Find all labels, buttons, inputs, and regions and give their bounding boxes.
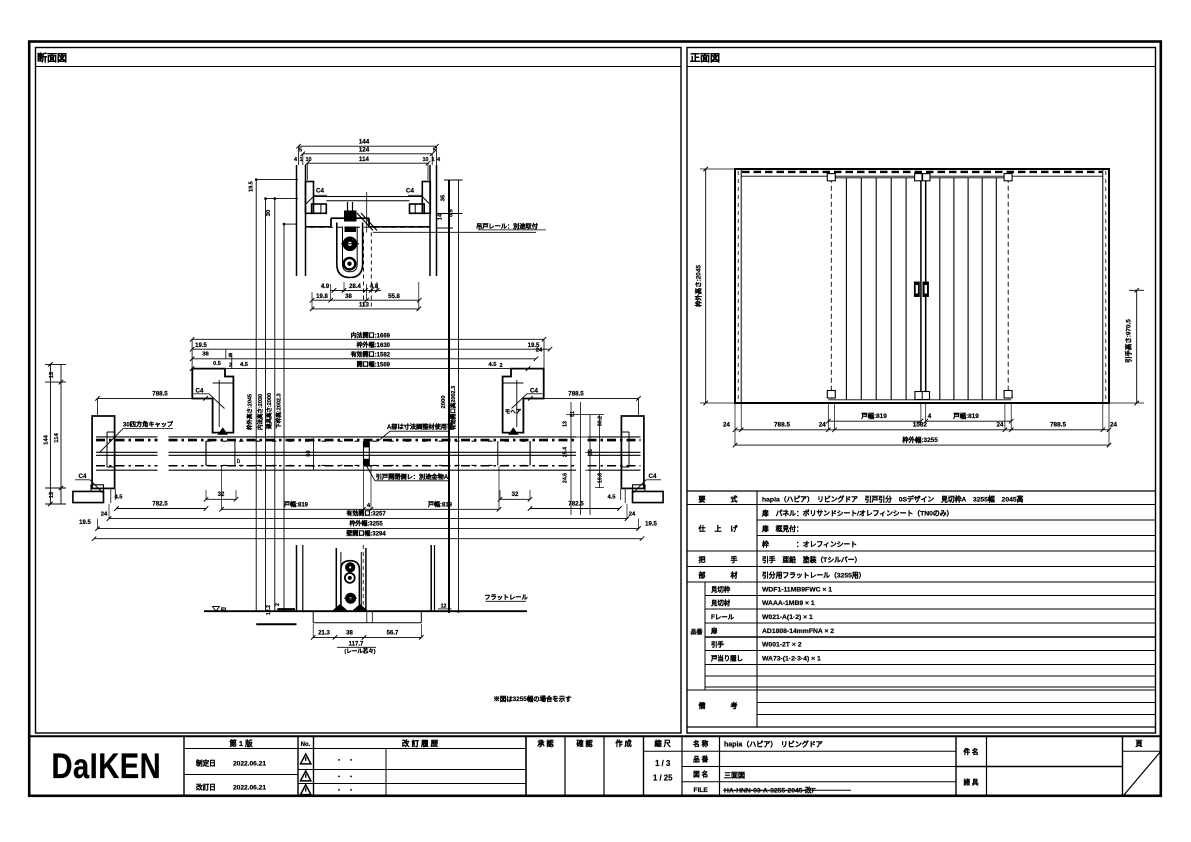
svg-text:30: 30 <box>266 210 272 216</box>
svg-text:品番: 品番 <box>690 628 703 636</box>
name rows grid <box>682 750 956 752</box>
adjuster marker triangle A left <box>218 427 229 435</box>
threshold black bar at floor <box>277 608 295 610</box>
door leaf hidden edges below rail <box>363 233 365 309</box>
spec table hinban label divider <box>704 582 706 690</box>
dim 32 right <box>500 498 530 500</box>
svg-text:縮 尺: 縮 尺 <box>655 739 672 748</box>
dim line 1669 <box>192 338 544 340</box>
svg-text:改 訂 履 歴: 改 訂 履 歴 <box>402 738 439 748</box>
floor guide middle roller <box>345 573 355 583</box>
band top line <box>96 436 158 438</box>
svg-text:144: 144 <box>44 434 50 444</box>
svg-text:25.4: 25.4 <box>563 447 569 457</box>
svg-text:備: 備 <box>699 701 706 710</box>
head jamb board left <box>306 182 314 214</box>
head jamb foot block right <box>410 204 425 213</box>
svg-text:10: 10 <box>305 157 311 163</box>
left end cap profile <box>92 416 115 488</box>
svg-text:引手: 引手 <box>711 640 724 649</box>
vertical reference line 2002.3 <box>458 180 460 611</box>
svg-text:2000: 2000 <box>441 396 447 409</box>
svg-text:図 名: 図 名 <box>693 770 708 779</box>
spec table outer horizontals <box>687 490 1156 492</box>
svg-text:14: 14 <box>438 213 444 220</box>
svg-text:4: 4 <box>928 413 932 420</box>
svg-text:戸幅:819: 戸幅:819 <box>861 411 887 420</box>
revision warning triangle 3 <box>300 785 310 795</box>
left end cap lower L profile <box>73 491 104 502</box>
FL marker <box>213 607 220 612</box>
svg-text:(レール芯々): (レール芯々) <box>344 647 375 655</box>
svg-text:・ ・: ・ ・ <box>336 759 354 765</box>
svg-text:4.8: 4.8 <box>370 284 379 290</box>
svg-text:1582: 1582 <box>913 422 928 429</box>
svg-text:2022.06.21: 2022.06.21 <box>233 785 266 792</box>
svg-text:38: 38 <box>202 352 209 358</box>
svg-text:フラットレール: フラットレール <box>484 595 528 602</box>
svg-text:4.9: 4.9 <box>321 284 330 290</box>
svg-text:10: 10 <box>422 157 428 163</box>
hanger marker square top left <box>827 174 835 181</box>
svg-text:下枠高:2002.3: 下枠高:2002.3 <box>275 393 283 428</box>
hanger clamp plate <box>345 227 357 233</box>
sub floor thick bar left <box>256 623 296 625</box>
svg-text:782.5: 782.5 <box>568 501 584 508</box>
elevation head rail lower line <box>741 175 1103 177</box>
svg-text:制定日: 制定日 <box>196 759 216 768</box>
svg-text:扉 框見付：: 扉 框見付： <box>762 524 803 533</box>
guide marker square bottom center <box>915 392 930 400</box>
svg-text:19.8: 19.8 <box>316 294 328 300</box>
elevation frame stile dashed right <box>1105 171 1107 401</box>
left door panel groove lines <box>845 178 847 400</box>
svg-text:24: 24 <box>723 422 730 429</box>
svg-text:38: 38 <box>345 294 352 300</box>
svg-text:788.5: 788.5 <box>152 390 168 397</box>
svg-text:W021-A(1·2) × 1: W021-A(1·2) × 1 <box>762 614 813 621</box>
floor guide outer bars <box>335 548 337 610</box>
tick top of right reference lines <box>444 179 463 181</box>
svg-text:114: 114 <box>54 433 60 443</box>
elevation dim 819 left <box>828 420 921 422</box>
wall section line left pair lower <box>296 545 298 612</box>
band inner line lower <box>96 454 158 456</box>
svg-text:W001-2T × 2: W001-2T × 2 <box>762 642 802 649</box>
svg-text:51: 51 <box>570 411 576 417</box>
hanger diagonal brace <box>357 213 373 231</box>
svg-text:げ: げ <box>731 524 739 533</box>
svg-text:788.5: 788.5 <box>774 422 790 429</box>
svg-text:32: 32 <box>218 492 225 498</box>
vertical ext line from stile left face <box>191 339 193 368</box>
left door pocket edge dashed <box>830 178 832 400</box>
svg-text:有効開口:1582: 有効開口:1582 <box>351 351 391 359</box>
hanger bolt block <box>344 211 357 222</box>
rail dashed line <box>310 226 428 228</box>
svg-text:改訂日: 改訂日 <box>196 783 216 792</box>
svg-text:0.5: 0.5 <box>449 209 455 217</box>
svg-text:24: 24 <box>536 348 543 354</box>
svg-text:19.5: 19.5 <box>645 521 657 527</box>
elevation height dim 2045 <box>705 169 707 403</box>
dim line 1582 <box>192 358 536 360</box>
svg-text:Fレール: Fレール <box>711 613 735 621</box>
dim chain 819 4 819 <box>222 508 500 510</box>
title block top border <box>29 735 1161 737</box>
svg-text:戸幅:819: 戸幅:819 <box>284 500 309 508</box>
svg-text:FL: FL <box>221 607 229 614</box>
revision warning triangle 1 <box>300 754 310 764</box>
svg-text:19.5: 19.5 <box>79 520 91 526</box>
right door leading edge <box>925 178 927 400</box>
svg-text:式: 式 <box>731 494 738 503</box>
spec table row 仕上げ bottom <box>687 550 1156 552</box>
spec table hinban bottom <box>687 689 1156 691</box>
spec table value column divider <box>756 491 758 727</box>
svg-text:枠外高さ:2045: 枠外高さ:2045 <box>246 394 254 431</box>
vertical reference line 2000 <box>448 180 450 613</box>
extension verticals for sub dims <box>311 292 313 309</box>
dim extension verticals above top assembly <box>298 146 300 165</box>
left panel (section view) frame <box>36 48 682 734</box>
elevation dim 819 right <box>926 420 1012 422</box>
hanger roller housing outer <box>337 223 363 278</box>
hanger marker squares top center <box>915 174 922 181</box>
tiny vertical ticks for 8 and 2 dims <box>225 349 227 359</box>
guide marker square bottom left <box>827 391 835 399</box>
hanger lower roller <box>344 258 356 270</box>
svg-text:引手高さ:970.5: 引手高さ:970.5 <box>1124 319 1133 363</box>
spec table finish rows <box>757 519 1156 521</box>
sub dim line 4.9 28.4 4.8 <box>330 289 381 291</box>
head board horizontal lines <box>314 196 423 198</box>
svg-text:確 認: 確 認 <box>576 739 593 748</box>
spec table row 部材 bottom <box>687 581 1156 583</box>
svg-text:要: 要 <box>699 494 706 503</box>
svg-text:承 認: 承 認 <box>537 739 554 748</box>
right door pocket edge dashed <box>1007 178 1009 400</box>
svg-text:上: 上 <box>715 524 722 533</box>
svg-text:32: 32 <box>512 492 519 498</box>
svg-text:35: 35 <box>588 449 594 455</box>
svg-text:内法高さ:2030: 内法高さ:2030 <box>256 394 264 430</box>
svg-text:24: 24 <box>1110 422 1117 429</box>
svg-text:1 / 3: 1 / 3 <box>655 759 671 768</box>
elevation dim extension verticals <box>734 403 736 445</box>
svg-text:扉: 扉 <box>711 626 718 635</box>
svg-text:19.8: 19.8 <box>598 473 604 483</box>
left panel header separator <box>36 66 682 68</box>
elevation door frame outline <box>735 169 1109 403</box>
svg-text:0.5: 0.5 <box>213 361 221 367</box>
svg-text:有効開口:3257: 有効開口:3257 <box>346 510 386 518</box>
svg-text:55.8: 55.8 <box>388 294 400 300</box>
dim 32 left <box>206 498 236 500</box>
rail anchor wedges <box>333 604 348 610</box>
svg-text:124: 124 <box>359 146 370 153</box>
svg-text:782.5: 782.5 <box>152 501 168 508</box>
elevation handle height dim 970.5 <box>1136 290 1138 403</box>
svg-text:戸当り隠し: 戸当り隠し <box>711 654 743 663</box>
svg-text:113: 113 <box>359 302 370 309</box>
svg-text:モヘア: モヘア <box>505 409 522 416</box>
svg-text:枠 ：オレフィンシート: 枠 ：オレフィンシート <box>761 540 857 549</box>
svg-text:FILE: FILE <box>694 787 709 794</box>
right panel (elevation view) frame <box>687 48 1156 734</box>
scale column 縮尺 <box>644 750 683 752</box>
svg-text:13: 13 <box>563 421 569 427</box>
left dim extension line cluster <box>255 180 257 612</box>
svg-text:15: 15 <box>49 491 55 498</box>
svg-text:C4: C4 <box>530 387 538 394</box>
elevation door bottom edge <box>828 399 1011 401</box>
dim 788.5 right <box>530 397 638 399</box>
svg-text:hapia（ハピア） リビングドア: hapia（ハピア） リビングドア <box>724 739 823 748</box>
svg-text:WAAA-1MB9 × 1: WAAA-1MB9 × 1 <box>762 600 815 607</box>
svg-text:手: 手 <box>731 555 738 564</box>
svg-text:4.5: 4.5 <box>114 495 123 501</box>
leader line to rail note <box>373 231 536 233</box>
centerline of hanger <box>366 192 368 233</box>
svg-text:12.2: 12.2 <box>266 605 272 615</box>
spec table row 要式 bottom <box>687 504 1156 506</box>
door handle left <box>914 282 920 298</box>
svg-text:24.6: 24.6 <box>563 473 569 483</box>
svg-text:品 番: 品 番 <box>693 754 708 763</box>
svg-text:24: 24 <box>997 422 1004 429</box>
svg-text:見切材: 見切材 <box>710 598 731 607</box>
svg-text:部: 部 <box>699 571 706 580</box>
svg-text:38: 38 <box>346 630 353 636</box>
floor guide lower roller <box>346 593 356 603</box>
left door leading edge <box>920 178 922 400</box>
svg-text:名 称: 名 称 <box>693 739 708 748</box>
elevation head rail heavy dashed line <box>742 171 1102 173</box>
elevation chain 24 788.5 24 1582 24 788.5 24 <box>735 429 1109 431</box>
band bottom line <box>96 469 158 471</box>
top dim line 114 <box>307 162 428 164</box>
left door stile profile <box>192 369 233 433</box>
hanger marker square top right <box>1004 174 1012 181</box>
sub dim line 19.8 38 55.8 <box>312 299 419 301</box>
svg-text:C4: C4 <box>649 473 657 480</box>
floor guide top roller <box>346 563 355 572</box>
hanger roller housing inner <box>343 227 358 272</box>
svg-text:DaIKEN: DaIKEN <box>52 746 162 785</box>
svg-text:114: 114 <box>359 156 370 163</box>
svg-text:21.3: 21.3 <box>318 630 330 636</box>
right end cap lower L profile <box>633 491 664 502</box>
spec table hinban rows <box>705 595 1156 597</box>
svg-text:1: 1 <box>299 157 302 163</box>
svg-text:WA73-(1·2·3·4) × 1: WA73-(1·2·3·4) × 1 <box>762 656 821 663</box>
svg-text:117.7: 117.7 <box>349 642 364 648</box>
head jamb foot block left <box>312 204 327 213</box>
svg-text:把: 把 <box>699 555 706 564</box>
svg-text:8: 8 <box>228 353 231 359</box>
svg-text:正面図: 正面図 <box>690 52 720 64</box>
dim chain 3255 <box>98 528 639 530</box>
svg-text:C4: C4 <box>196 387 204 394</box>
dim chain 3257 <box>109 518 627 520</box>
top dim line 124 <box>303 153 432 155</box>
right side small vertical dims <box>570 402 572 515</box>
svg-text:作 成: 作 成 <box>615 739 632 748</box>
top dim line 144 <box>299 145 437 147</box>
page column 頁 <box>1123 750 1161 752</box>
svg-text:C4: C4 <box>79 473 87 480</box>
svg-text:AD1808-14mmFNA × 2: AD1808-14mmFNA × 2 <box>762 628 834 635</box>
svg-text:開口幅:1569: 開口幅:1569 <box>357 360 391 368</box>
right end cap profile <box>621 416 644 488</box>
floor line <box>204 610 527 612</box>
dim chain 3294 wall opening <box>94 538 642 540</box>
svg-text:引手 亜鉛 塗装（Tシルバー）: 引手 亜鉛 塗装（Tシルバー） <box>762 555 861 564</box>
svg-text:1 / 25: 1 / 25 <box>653 774 673 783</box>
hanger upper roller <box>343 237 357 251</box>
svg-text:枠外高さ:2045: 枠外高さ:2045 <box>694 265 703 307</box>
spec table row 把手 bottom <box>687 566 1156 568</box>
left margin vertical dim lines <box>49 364 51 504</box>
revision history divider <box>385 749 387 797</box>
elevation frame inner verticals <box>740 169 742 403</box>
sub dim line 113 <box>312 308 419 310</box>
svg-text:35: 35 <box>441 194 447 201</box>
svg-text:80.2: 80.2 <box>598 416 604 426</box>
svg-text:吊戸レール：別途取付: 吊戸レール：別途取付 <box>476 223 539 231</box>
svg-text:戸幅:819: 戸幅:819 <box>428 500 453 508</box>
title block verticals <box>183 736 185 796</box>
svg-text:A部は寸法調整材使用可: A部は寸法調整材使用可 <box>387 423 453 431</box>
revision warning triangle 2 <box>300 771 310 781</box>
adjuster marker triangle A right <box>508 427 519 435</box>
svg-text:件 名: 件 名 <box>963 747 978 756</box>
elevation frame stile dashed left <box>737 171 739 401</box>
right door stile profile <box>503 369 544 433</box>
svg-text:4.5: 4.5 <box>240 362 249 368</box>
svg-text:・ ・: ・ ・ <box>336 775 354 781</box>
svg-text:見切枠: 見切枠 <box>710 585 731 594</box>
dim line 1569 <box>192 368 528 370</box>
svg-text:4.5: 4.5 <box>488 362 497 368</box>
svg-text:28.4: 28.4 <box>349 284 361 290</box>
svg-text:考: 考 <box>731 701 738 710</box>
svg-text:材: 材 <box>730 571 738 580</box>
dim 788.5 left <box>98 397 206 399</box>
svg-text:15: 15 <box>49 371 55 378</box>
band inner line upper <box>96 451 158 453</box>
svg-text:24: 24 <box>101 512 108 518</box>
svg-text:WDF1-11MB9FWC × 1: WDF1-11MB9FWC × 1 <box>762 587 832 594</box>
svg-text:引分用フラットレール（3255用）: 引分用フラットレール（3255用） <box>762 571 865 580</box>
svg-text:断面図: 断面図 <box>37 51 67 64</box>
svg-text:内法開口:1669: 内法開口:1669 <box>351 331 391 339</box>
page diagonal slash <box>1124 752 1161 795</box>
floor dim 21.3 38 56.7 <box>313 636 421 638</box>
svg-text:50: 50 <box>306 450 312 456</box>
door leaf left in plan <box>205 441 207 465</box>
svg-text:4.5: 4.5 <box>607 495 616 501</box>
head jamb board right <box>422 182 430 214</box>
svg-text:※図は3255幅の場合を示す: ※図は3255幅の場合を示す <box>493 694 572 703</box>
svg-text:2022.06.21: 2022.06.21 <box>233 761 266 768</box>
svg-text:19.5: 19.5 <box>195 343 207 349</box>
right panel header separator <box>687 66 1156 68</box>
svg-text:788.5: 788.5 <box>1050 422 1066 429</box>
svg-text:C4: C4 <box>316 188 324 195</box>
spec table biko rows <box>757 702 1156 704</box>
svg-text:C4: C4 <box>406 188 414 195</box>
DAIKEN logo <box>52 746 162 785</box>
floor recess box <box>312 611 314 623</box>
door leaf right in plan <box>529 441 531 465</box>
svg-text:30四方角キャップ: 30四方角キャップ <box>123 421 174 429</box>
svg-text:788.5: 788.5 <box>568 390 584 397</box>
svg-text:24: 24 <box>819 422 826 429</box>
svg-text:仕: 仕 <box>698 524 706 533</box>
svg-text:第 1 版: 第 1 版 <box>229 738 253 748</box>
svg-text:56.7: 56.7 <box>387 630 399 636</box>
svg-text:戸幅:819: 戸幅:819 <box>953 411 979 420</box>
band dash-dot bottom <box>96 465 158 467</box>
svg-text:24: 24 <box>629 512 636 518</box>
svg-text:hapia（ハピア） リビングドア 引戸引分 0Sデザイン: hapia（ハピア） リビングドア 引戸引分 0Sデザイン 見切枠A 3255幅… <box>762 494 1024 503</box>
elevation overall width dim 3255 <box>735 444 1109 446</box>
svg-text:19.5: 19.5 <box>248 181 254 192</box>
svg-text:144: 144 <box>359 139 370 146</box>
svg-text:扉 パネル：ポリサンドシート/オレフィンシート（TN0のみ）: 扉 パネル：ポリサンドシート/オレフィンシート（TN0のみ） <box>762 509 953 518</box>
dim 782.5 left <box>117 508 207 510</box>
dim 782.5 right <box>530 508 620 510</box>
rail mount stepped outline <box>306 226 332 228</box>
elevation door top edge <box>828 177 1011 179</box>
door handle right <box>923 282 929 298</box>
svg-text:枠外幅:1630: 枠外幅:1630 <box>357 341 391 349</box>
dim line 1630 <box>192 348 550 350</box>
svg-text:・ ・: ・ ・ <box>336 789 354 795</box>
wall section line right pair upper <box>429 165 431 276</box>
svg-text:2: 2 <box>499 363 502 369</box>
svg-text:頁: 頁 <box>1135 739 1143 748</box>
wall section line left pair upper <box>296 165 298 276</box>
wall section line right pair lower <box>430 545 432 612</box>
svg-text:枠外幅:3255: 枠外幅:3255 <box>902 435 938 444</box>
svg-text:壁開口幅:3294: 壁開口幅:3294 <box>346 530 386 538</box>
revision number column <box>298 748 526 750</box>
svg-text:建具高さ:2000: 建具高さ:2000 <box>265 393 273 429</box>
svg-text:No.: No. <box>301 742 311 748</box>
svg-text:諸 具: 諸 具 <box>963 778 978 787</box>
dim line 50 in band <box>313 438 315 470</box>
right door panel groove lines <box>939 178 941 400</box>
edition table header 第1版 <box>184 748 298 750</box>
band dash-dot top heavy <box>96 439 158 442</box>
door leaf hidden edge at floor <box>362 545 364 610</box>
meeting stile connector <box>363 441 365 465</box>
svg-text:2: 2 <box>275 603 281 606</box>
guide marker square bottom right <box>1004 391 1012 399</box>
svg-text:三面図: 三面図 <box>724 770 745 779</box>
svg-text:引戸開閉側レ：別途金物A: 引戸開閉側レ：別途金物A <box>376 473 449 481</box>
svg-text:枠外幅:3255: 枠外幅:3255 <box>349 520 383 528</box>
floor guide housing <box>341 561 360 610</box>
